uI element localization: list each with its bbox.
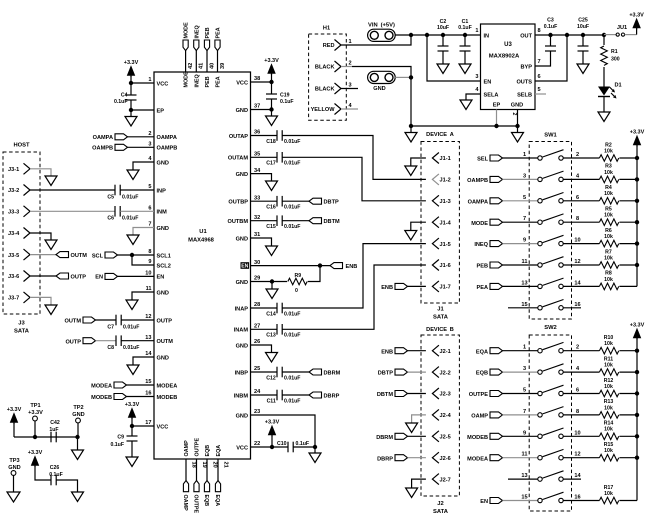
wire SW1 pin 12 to R7 xyxy=(563,264,599,266)
svg-text:2: 2 xyxy=(511,113,517,116)
capacitor C6 0.01uF xyxy=(114,206,116,217)
wire TP2 to ground xyxy=(77,437,79,450)
svg-text:EN: EN xyxy=(480,499,488,505)
IC U3 MAX8902A body xyxy=(481,24,536,110)
svg-text:14: 14 xyxy=(574,280,581,286)
svg-text:3: 3 xyxy=(349,83,352,89)
wire TP3 to ground xyxy=(13,476,15,493)
svg-text:1: 1 xyxy=(523,345,526,351)
wire J3-4 to ground xyxy=(30,233,51,240)
svg-text:R10: R10 xyxy=(604,335,614,341)
svg-text:7: 7 xyxy=(148,222,151,228)
svg-text:16: 16 xyxy=(145,391,151,397)
svg-text:10k: 10k xyxy=(604,427,613,433)
svg-text:5: 5 xyxy=(523,388,526,394)
wire SW1 pin 4 to R3 xyxy=(563,178,599,180)
svg-text:9: 9 xyxy=(148,259,151,265)
wire C7 to pin 12 OUTP xyxy=(121,319,154,321)
wire pin 29 GND xyxy=(251,281,288,283)
svg-text:RED: RED xyxy=(323,43,335,49)
svg-text:1: 1 xyxy=(523,152,526,158)
wire PEA to SW1 pin 13 xyxy=(503,285,538,287)
svg-text:IN: IN xyxy=(484,33,490,39)
resistor R14 10k xyxy=(599,433,618,440)
net flag PEB (top) xyxy=(204,40,209,51)
svg-text:R12: R12 xyxy=(604,378,614,384)
svg-text:3: 3 xyxy=(475,74,478,80)
svg-text:OAMPA: OAMPA xyxy=(157,135,177,141)
svg-text:EN: EN xyxy=(157,275,165,281)
svg-text:C10: C10 xyxy=(277,441,287,447)
switch SW2-3 xyxy=(538,391,542,395)
ground at pin 31 xyxy=(266,246,278,256)
svg-text:0.01uF: 0.01uF xyxy=(284,375,300,381)
svg-text:MAX8902A: MAX8902A xyxy=(489,54,520,60)
svg-text:2: 2 xyxy=(148,131,151,137)
wire J2-7 to ground xyxy=(412,479,426,488)
wire SW2 pin 14 stub xyxy=(563,478,581,480)
svg-text:J2-3: J2-3 xyxy=(440,392,451,398)
svg-text:6: 6 xyxy=(576,195,579,201)
svg-text:35: 35 xyxy=(254,152,260,158)
svg-text:0.01uF: 0.01uF xyxy=(284,333,300,339)
wire SW1 pin 14 to R8 xyxy=(563,285,599,287)
svg-text:23: 23 xyxy=(254,409,260,415)
wire R15 to +3.3V rail xyxy=(619,457,637,459)
svg-text:0.1uF: 0.1uF xyxy=(280,99,294,105)
wire pin 36 OUTAP + capacitor C18 0.01uF xyxy=(251,135,278,137)
svg-text:OUTM: OUTM xyxy=(71,253,88,259)
connector pin J3-7 xyxy=(24,292,31,303)
ground at J1-1 xyxy=(405,166,417,176)
svg-text:MODEB: MODEB xyxy=(157,395,178,401)
svg-text:C19: C19 xyxy=(280,93,290,99)
wire C8 to pin 13 OUTM xyxy=(121,340,154,342)
svg-text:2: 2 xyxy=(576,345,579,351)
ground at pin 34 xyxy=(266,181,278,191)
wire C14 to J1-5 xyxy=(282,244,426,308)
svg-text:DBTM: DBTM xyxy=(324,219,340,225)
svg-text:OUTP: OUTP xyxy=(65,339,81,345)
svg-text:C25: C25 xyxy=(578,18,588,24)
node junction EN/R9 xyxy=(318,263,322,267)
svg-text:DEVICE B: DEVICE B xyxy=(426,327,454,333)
svg-text:EQB: EQB xyxy=(476,371,488,377)
svg-text:3: 3 xyxy=(523,173,526,179)
wire EQA to SW2 pin 1 xyxy=(503,350,538,352)
svg-text:5: 5 xyxy=(538,87,541,93)
svg-text:12: 12 xyxy=(145,314,151,320)
wire MODE to SW1 pin 7 xyxy=(503,221,538,223)
svg-text:13: 13 xyxy=(145,335,151,341)
svg-text:12: 12 xyxy=(574,259,580,265)
wire J3-2 to C5 xyxy=(30,189,115,191)
wire R17 to +3.3V rail xyxy=(619,500,637,502)
ground below C25 xyxy=(577,64,589,74)
svg-text:10k: 10k xyxy=(604,277,613,283)
wire pin 31 GND xyxy=(251,238,272,246)
ground below C2 xyxy=(437,64,449,74)
wire OAMPA to pin 2 xyxy=(128,136,155,138)
svg-text:24: 24 xyxy=(254,389,261,395)
svg-text:0.01uF: 0.01uF xyxy=(284,224,300,230)
switch SW2-4 xyxy=(538,413,542,417)
wire EN flag to pin 10 xyxy=(118,275,155,277)
wire H1-2 BLACK to GND node xyxy=(341,66,352,68)
svg-text:INM: INM xyxy=(157,210,168,216)
svg-text:HOST: HOST xyxy=(13,143,30,149)
svg-text:+3.3V: +3.3V xyxy=(28,410,43,416)
svg-text:10uF: 10uF xyxy=(577,24,589,30)
power +3.3V (U1 pin 22) xyxy=(268,426,276,436)
svg-text:14: 14 xyxy=(574,473,581,479)
svg-text:OAMP: OAMP xyxy=(184,440,190,457)
svg-text:14: 14 xyxy=(145,351,152,357)
wire OUTP flag to C8 xyxy=(96,340,117,342)
wire C10 to ground node xyxy=(293,446,315,448)
wire OUTPE to SW2 pin 5 xyxy=(503,393,538,395)
svg-text:DBTP: DBTP xyxy=(324,200,339,206)
capacitor C26 0.1uF xyxy=(50,475,52,486)
wire H1-1 RED to +5V node xyxy=(341,35,411,45)
svg-text:19: 19 xyxy=(201,462,207,468)
switch SW2-6 xyxy=(538,456,542,460)
wire SW1 pin 16 stub xyxy=(563,307,581,309)
svg-text:GND: GND xyxy=(157,290,169,296)
svg-text:10k: 10k xyxy=(604,148,613,154)
wire U3 SELA pin 4 to ground xyxy=(466,94,481,100)
svg-text:OAMP: OAMP xyxy=(471,414,488,420)
power +3.3V (test point rail) xyxy=(10,413,18,423)
svg-text:DBRP: DBRP xyxy=(324,393,340,399)
ground at TP3 xyxy=(7,492,20,502)
svg-text:39: 39 xyxy=(220,63,226,69)
wire test point rail xyxy=(14,436,78,438)
svg-text:PEB: PEB xyxy=(205,27,211,38)
wire GND pad down to ground net xyxy=(395,76,411,78)
svg-text:SELB: SELB xyxy=(517,92,532,98)
ground at pin 29 xyxy=(271,282,273,290)
ground at J2-4 xyxy=(406,423,418,433)
svg-text:PEA: PEA xyxy=(216,76,222,87)
svg-text:10k: 10k xyxy=(604,384,613,390)
svg-text:INEQ: INEQ xyxy=(474,242,488,248)
svg-text:EN: EN xyxy=(241,264,248,270)
svg-text:0.1uF: 0.1uF xyxy=(49,472,63,478)
svg-text:7: 7 xyxy=(523,216,526,222)
node junction at C9 xyxy=(130,424,134,428)
svg-text:10: 10 xyxy=(145,271,151,277)
wire H1-4 stub xyxy=(341,108,358,110)
svg-text:OUTS: OUTS xyxy=(516,79,532,85)
svg-text:VIN (+5V): VIN (+5V) xyxy=(368,23,395,29)
ground at DEVICE A branch xyxy=(410,126,412,133)
svg-text:MODEB: MODEB xyxy=(91,395,112,401)
capacitor C8 0.01uF xyxy=(115,335,117,346)
svg-text:21: 21 xyxy=(222,462,228,468)
resistor R1 300 xyxy=(603,35,605,45)
wire pin 35 OUTAM + capacitor C17 0.01uF xyxy=(251,156,278,158)
svg-text:C7: C7 xyxy=(107,324,114,330)
net flag OUTPE (bottom) xyxy=(194,481,199,492)
switch SW1-8 xyxy=(538,306,542,310)
svg-text:8: 8 xyxy=(538,28,541,34)
svg-text:VCC: VCC xyxy=(157,424,169,430)
svg-text:300: 300 xyxy=(611,57,620,63)
svg-text:H1: H1 xyxy=(323,26,330,32)
svg-text:EQA: EQA xyxy=(476,349,488,355)
svg-text:J3-7: J3-7 xyxy=(8,296,19,302)
ground at J3-4 xyxy=(45,240,57,250)
wire J3-7 to ground xyxy=(30,297,51,305)
svg-text:MODE: MODE xyxy=(184,22,190,39)
svg-text:SELA: SELA xyxy=(484,92,499,98)
switch SW1-4 xyxy=(538,220,542,224)
svg-text:C11: C11 xyxy=(267,398,276,404)
wire C17 to J1-3 xyxy=(282,157,426,201)
wire J3-6 to OUTP flag xyxy=(30,275,56,277)
svg-text:37: 37 xyxy=(254,104,260,110)
wire ENB to J2-1 xyxy=(408,350,426,352)
svg-text:SCL2: SCL2 xyxy=(157,263,171,269)
svg-text:GND: GND xyxy=(157,160,169,166)
wire pin 33 OUTBP + capacitor C16 0.01uF xyxy=(251,200,278,202)
svg-text:JU1: JU1 xyxy=(617,25,627,31)
svg-text:BLACK: BLACK xyxy=(315,65,335,71)
wire pin 24 INBM + capacitor C11 0.01uF xyxy=(251,394,278,396)
svg-text:10k: 10k xyxy=(604,213,613,219)
switch SW1-5 xyxy=(538,241,542,245)
capacitor C10 0.1uF xyxy=(287,442,289,453)
svg-text:GND: GND xyxy=(8,465,20,471)
wire SW1 pin 8 to R5 xyxy=(563,221,599,223)
svg-text:OUTP: OUTP xyxy=(71,274,87,280)
U1 bottom pin 18 OAMP wire xyxy=(185,459,187,481)
pad GND xyxy=(368,71,396,83)
wire U3 OUT rail xyxy=(535,34,604,36)
svg-text:11: 11 xyxy=(146,286,152,292)
power +3.3V (U1 pin 38) xyxy=(268,64,276,74)
wire C11 to DBRP flag xyxy=(282,394,309,396)
wire C26 to ground xyxy=(56,480,77,492)
svg-text:10k: 10k xyxy=(604,234,613,240)
connector pin J1-4 xyxy=(432,217,439,228)
svg-text:R1: R1 xyxy=(611,49,618,55)
svg-text:C26: C26 xyxy=(50,465,60,471)
svg-text:J2-1: J2-1 xyxy=(440,349,451,355)
ground below U3 xyxy=(512,133,524,143)
svg-text:26: 26 xyxy=(254,339,260,345)
svg-text:R6: R6 xyxy=(605,228,612,234)
wire DBRM to J2-5 xyxy=(408,435,426,437)
connector pin J2-5 xyxy=(432,431,439,442)
power +3.3V (U1 pin 17) xyxy=(128,408,136,418)
svg-text:J3-5: J3-5 xyxy=(8,253,19,259)
switch SW2-1 xyxy=(538,349,542,353)
svg-text:9: 9 xyxy=(523,238,526,244)
wire SW1 pin 6 to R4 xyxy=(563,200,599,202)
svg-text:+3.3V: +3.3V xyxy=(630,322,645,328)
wire SW1 pin 2 to R2 xyxy=(563,157,599,159)
svg-text:J1-7: J1-7 xyxy=(440,285,451,291)
wire R11 to +3.3V rail xyxy=(619,371,637,373)
svg-text:R13: R13 xyxy=(604,399,614,405)
U1 top pin 41 INEQ wire xyxy=(195,51,197,73)
svg-text:R14: R14 xyxy=(604,421,614,427)
svg-text:U3: U3 xyxy=(504,42,512,48)
svg-text:SATA: SATA xyxy=(14,329,30,335)
svg-text:R4: R4 xyxy=(605,185,612,191)
wire C18 to J1-2 xyxy=(282,136,426,180)
svg-text:C5: C5 xyxy=(107,194,114,200)
svg-text:30: 30 xyxy=(254,260,260,266)
wire R12 to +3.3V rail xyxy=(619,393,637,395)
svg-text:3: 3 xyxy=(523,366,526,372)
wire DBTM to J2-3 xyxy=(408,393,426,395)
net flag DBTP (pin 33) xyxy=(309,198,322,204)
svg-text:7: 7 xyxy=(538,59,541,65)
wire MODEA to SW2 pin 11 xyxy=(503,457,538,459)
svg-text:INBM: INBM xyxy=(234,393,249,399)
connector pin J2-3 xyxy=(432,388,439,399)
ground at J3-1 xyxy=(45,176,57,186)
wire pin 4 GND xyxy=(133,162,154,170)
resistor R10 10k xyxy=(599,347,618,354)
wire SW1 pin 10 to R6 xyxy=(563,243,599,245)
svg-text:C14: C14 xyxy=(266,311,276,317)
svg-text:J2-6: J2-6 xyxy=(440,456,451,462)
svg-text:J1: J1 xyxy=(437,307,444,313)
svg-text:10k: 10k xyxy=(604,405,613,411)
svg-text:J1-3: J1-3 xyxy=(440,199,451,205)
capacitor C7 0.01uF xyxy=(115,315,117,326)
ground at SELA xyxy=(460,100,472,110)
wire pin 14 GND xyxy=(133,357,154,365)
wire U3 EN pin 3 xyxy=(427,35,481,81)
svg-text:C6: C6 xyxy=(107,216,114,222)
svg-text:R7: R7 xyxy=(605,249,612,255)
ground at pin 14 xyxy=(127,365,139,375)
svg-text:34: 34 xyxy=(254,168,261,174)
svg-text:10k: 10k xyxy=(604,341,613,347)
wire C16 to DBTP flag xyxy=(282,200,309,202)
svg-text:OAMPA: OAMPA xyxy=(468,199,488,205)
connector pin J2-6 xyxy=(432,452,439,463)
svg-text:OUTAM: OUTAM xyxy=(228,156,248,162)
svg-text:6: 6 xyxy=(576,388,579,394)
svg-text:8: 8 xyxy=(576,409,579,415)
resistor R3 10k xyxy=(599,176,618,183)
capacitor C42 1uF xyxy=(50,432,52,443)
svg-text:INEQ: INEQ xyxy=(194,74,200,87)
svg-text:33: 33 xyxy=(254,195,260,201)
wire U3 SELB stub xyxy=(535,93,546,95)
wire MODEB to SW2 pin 9 xyxy=(503,435,538,437)
svg-text:38: 38 xyxy=(254,76,260,82)
svg-text:41: 41 xyxy=(199,63,205,69)
resistor R7 10k xyxy=(599,262,618,269)
svg-text:SW1: SW1 xyxy=(544,133,557,139)
svg-text:SCL1: SCL1 xyxy=(157,253,171,259)
resistor R4 10k xyxy=(599,198,618,205)
wire OAMPB to SW1 pin 3 xyxy=(503,178,538,180)
connector pin J2-7 xyxy=(432,474,439,485)
power +3.3V (C26) xyxy=(31,456,39,466)
ground at pin 26 xyxy=(266,353,278,363)
svg-text:OAMPB: OAMPB xyxy=(157,146,178,152)
svg-text:+3.3V: +3.3V xyxy=(28,450,43,456)
svg-text:15: 15 xyxy=(521,302,527,308)
connector pin J3-3 xyxy=(24,206,31,217)
svg-text:PEA: PEA xyxy=(216,27,222,38)
ground below C9 xyxy=(126,457,138,467)
ground at pin 7 xyxy=(127,235,139,245)
wire SCL to pin 8 SCL1 xyxy=(118,254,155,256)
wire C15 to DBTM flag xyxy=(282,220,309,222)
svg-text:J1-1: J1-1 xyxy=(440,156,451,162)
svg-text:PEB: PEB xyxy=(205,76,211,87)
svg-text:J2: J2 xyxy=(437,501,443,507)
switch SW1-2 xyxy=(538,177,542,181)
svg-text:J1-2: J1-2 xyxy=(440,178,451,184)
switch SW2-2 xyxy=(538,370,542,374)
svg-text:DBRM: DBRM xyxy=(324,370,341,376)
wire pin 27 INAM + capacitor C13 0.01uF xyxy=(251,328,278,330)
svg-text:R5: R5 xyxy=(605,207,612,213)
svg-text:C3: C3 xyxy=(547,18,554,24)
capacitor C19 0.1uF xyxy=(271,82,273,94)
svg-text:6: 6 xyxy=(538,74,541,80)
svg-text:GND: GND xyxy=(236,172,248,178)
wire SW2 pin 2 to R10 xyxy=(563,350,599,352)
svg-text:R17: R17 xyxy=(604,485,614,491)
wire U3 EP to ground net xyxy=(496,110,498,127)
wire SW2 pull-up rail xyxy=(636,338,638,501)
svg-text:U1: U1 xyxy=(199,229,207,235)
svg-text:MODEA: MODEA xyxy=(467,456,488,462)
connector pin J1-1 xyxy=(432,153,439,164)
svg-text:20: 20 xyxy=(211,462,217,468)
wire R5 to +3.3V rail xyxy=(619,221,637,223)
svg-text:11: 11 xyxy=(522,452,528,458)
svg-text:PEB: PEB xyxy=(476,264,488,270)
svg-text:1: 1 xyxy=(349,39,352,45)
svg-text:32: 32 xyxy=(254,215,260,221)
svg-text:EN: EN xyxy=(95,275,103,281)
svg-text:10k: 10k xyxy=(604,448,613,454)
svg-text:2: 2 xyxy=(349,61,352,67)
svg-text:10uF: 10uF xyxy=(437,25,449,31)
capacitor C4 0.1uF xyxy=(130,83,132,95)
svg-text:MODEA: MODEA xyxy=(157,383,178,389)
svg-text:0.1uF: 0.1uF xyxy=(110,442,124,448)
svg-text:ENB: ENB xyxy=(346,264,358,270)
svg-text:SCL: SCL xyxy=(92,253,104,259)
svg-text:29: 29 xyxy=(254,276,260,282)
svg-text:DBRP: DBRP xyxy=(377,456,393,462)
svg-text:OUTPE: OUTPE xyxy=(195,438,201,457)
power +3.3V (U1 pin 1) xyxy=(127,66,135,76)
connector pin J1-3 xyxy=(432,195,439,206)
resistor R11 10k xyxy=(599,369,618,376)
U1 top pin 40 PEB wire xyxy=(206,51,208,73)
svg-text:GND: GND xyxy=(236,280,248,286)
svg-text:YELLOW: YELLOW xyxy=(311,107,336,113)
svg-text:OUTP: OUTP xyxy=(157,318,173,324)
wire OAMPA to SW1 pin 5 xyxy=(503,200,538,202)
wire R7 to +3.3V rail xyxy=(619,264,637,266)
node junction at C4 top xyxy=(129,81,133,85)
